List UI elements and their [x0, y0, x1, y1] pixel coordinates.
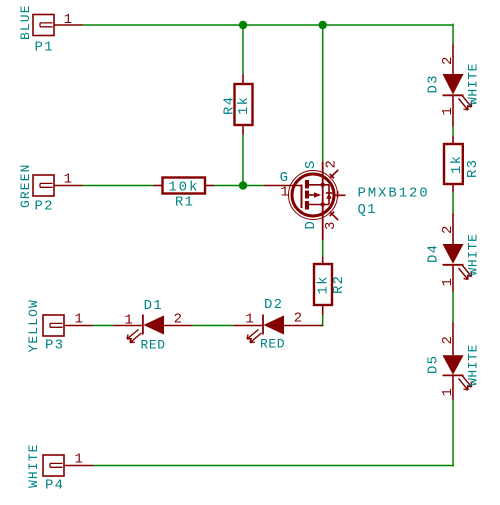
D2 light arrows — [247, 330, 259, 340]
Q1 channel bar middle — [305, 191, 309, 199]
svg-text:PMXB120: PMXB120 — [358, 186, 430, 202]
D2 triangle — [264, 315, 285, 334]
Q1 bottom internal link — [309, 204, 329, 206]
D5 light arrows — [459, 379, 469, 391]
svg-text:D2: D2 — [264, 297, 283, 313]
connector P3 — [26, 299, 93, 353]
svg-text:R1: R1 — [175, 195, 194, 211]
D3 cathode bar — [443, 94, 464, 96]
svg-text:Q1: Q1 — [358, 202, 377, 218]
svg-text:WHITE: WHITE — [466, 63, 481, 105]
wire vertical from top to R4 — [242, 25, 244, 74]
LED D4 — [426, 213, 481, 292]
wire D1 to D2 — [193, 325, 234, 327]
D3 light arrows — [459, 99, 469, 111]
svg-text:1k: 1k — [449, 155, 465, 174]
svg-text:WHITE: WHITE — [466, 233, 481, 275]
Q1 extra pin stub NE — [330, 170, 339, 179]
svg-text:10k: 10k — [168, 180, 199, 196]
svg-text:1: 1 — [64, 12, 74, 28]
svg-text:1: 1 — [280, 185, 290, 201]
LED D2 — [233, 297, 322, 352]
svg-text:WHITE: WHITE — [26, 443, 41, 488]
pin 2 of D4 — [452, 213, 454, 244]
svg-text:1: 1 — [245, 312, 255, 328]
pin 1 of P1 — [54, 24, 83, 26]
svg-text:RED: RED — [260, 337, 285, 352]
resistor R1 — [154, 178, 215, 211]
D4 triangle — [443, 244, 464, 264]
svg-text:1: 1 — [64, 172, 74, 188]
svg-text:1k: 1k — [236, 96, 252, 115]
D1 cathode bar — [142, 315, 144, 335]
wire top horizontal net — [83, 24, 453, 26]
pin 2 of D1 — [164, 325, 193, 327]
svg-text:R2: R2 — [331, 275, 347, 294]
D5 triangle — [443, 355, 464, 375]
Q1 channel bar top — [305, 180, 309, 189]
connector P4 — [26, 443, 94, 493]
Q1 gate pin line — [264, 185, 303, 187]
svg-text:RED: RED — [141, 338, 166, 353]
svg-text:D4: D4 — [426, 244, 442, 263]
svg-text:S: S — [303, 159, 319, 169]
svg-text:P1: P1 — [35, 40, 54, 56]
svg-text:2: 2 — [440, 55, 456, 65]
Q1 extra pin stub SE — [330, 212, 339, 221]
wire top to Q1 source — [322, 25, 324, 162]
D4 light arrows — [459, 268, 469, 280]
junction at gate node — [239, 181, 247, 189]
wire D3 to R3 — [452, 127, 454, 136]
D5 cathode bar — [443, 374, 464, 376]
svg-text:P4: P4 — [45, 478, 64, 494]
wire bottom horizontal to P4 — [94, 465, 454, 467]
svg-text:D5: D5 — [426, 355, 442, 374]
pin 1 of D4 — [452, 265, 454, 292]
wire Q1 drain to R2 — [322, 240, 324, 257]
svg-text:R3: R3 — [465, 159, 481, 178]
wire D4 to D5 — [452, 292, 454, 322]
Q1 top internal link — [309, 184, 329, 186]
pin 1 of D3 — [452, 95, 454, 126]
connector P2 — [18, 163, 83, 214]
D3 triangle — [443, 74, 464, 95]
resistor R3 — [444, 136, 481, 192]
D2 cathode bar — [262, 315, 264, 335]
Q1 body circle — [292, 174, 334, 216]
pin 2 of D3 — [452, 44, 454, 74]
svg-text:YELLOW: YELLOW — [26, 299, 41, 352]
svg-text:P3: P3 — [45, 338, 64, 354]
pin 1 of D5 — [452, 375, 454, 400]
junction at Q1 source column — [319, 21, 327, 29]
svg-text:1: 1 — [75, 451, 85, 467]
junction at R4 top — [239, 21, 247, 29]
pin 2 of D5 — [452, 322, 454, 355]
Q1 gate bar — [301, 185, 303, 209]
D4 cathode bar — [443, 264, 464, 266]
svg-text:1: 1 — [440, 387, 456, 397]
Q1 extra pin stub E — [336, 191, 346, 197]
pin 1 of D1 — [113, 325, 143, 327]
Q1 source-drain vertical line — [322, 162, 324, 240]
pin 1 of D2 — [233, 325, 263, 327]
LED D3 — [426, 44, 481, 127]
svg-text:D1: D1 — [144, 298, 163, 314]
Q1 substrate arrow — [309, 194, 315, 196]
svg-text:P2: P2 — [35, 199, 54, 215]
Q1 body diode branch — [328, 185, 330, 205]
Q1 internal node dots — [321, 183, 325, 187]
wire right rail top segment — [452, 24, 454, 44]
svg-text:3: 3 — [323, 220, 339, 230]
wire R2 to D2 corner — [321, 315, 323, 326]
svg-text:1: 1 — [440, 106, 456, 116]
transistor Q1 PMXB120 — [264, 159, 430, 240]
pin 2 of D2 — [284, 325, 323, 327]
resistor R4 — [222, 74, 253, 135]
svg-text:2: 2 — [440, 224, 456, 234]
LED D5 — [426, 322, 481, 400]
svg-text:BLUE: BLUE — [18, 4, 33, 40]
wire R1 to Q1 gate — [214, 185, 264, 187]
svg-text:1: 1 — [75, 311, 85, 327]
D1 light arrows — [127, 330, 139, 340]
svg-text:D: D — [303, 220, 319, 230]
svg-text:GREEN: GREEN — [18, 163, 33, 208]
Q1 outer thin circle — [289, 171, 338, 220]
wire D5 to bottom corner — [452, 400, 454, 466]
pin 1 of P2 — [54, 185, 83, 187]
wire P2 to R1 — [83, 185, 154, 187]
pin 1 of P4 — [64, 465, 94, 467]
svg-text:1k: 1k — [316, 275, 332, 294]
D1 triangle — [144, 315, 165, 334]
connector P1 — [18, 4, 83, 55]
wire R3 to D4 — [452, 192, 454, 213]
svg-text:1: 1 — [440, 277, 456, 287]
Q1 channel bar bottom — [305, 201, 309, 210]
svg-text:2: 2 — [294, 311, 304, 327]
svg-text:D3: D3 — [426, 74, 442, 93]
svg-text:1: 1 — [124, 313, 134, 329]
wire P3 to D1 — [93, 325, 113, 327]
pin 1 of P3 — [64, 325, 93, 327]
svg-text:2: 2 — [323, 159, 339, 169]
svg-text:2: 2 — [440, 335, 456, 345]
svg-text:WHITE: WHITE — [466, 344, 481, 386]
wire R4 bottom to gate node — [242, 135, 244, 186]
resistor R2 — [314, 257, 347, 316]
svg-text:2: 2 — [174, 312, 184, 328]
LED D1 — [113, 298, 193, 353]
